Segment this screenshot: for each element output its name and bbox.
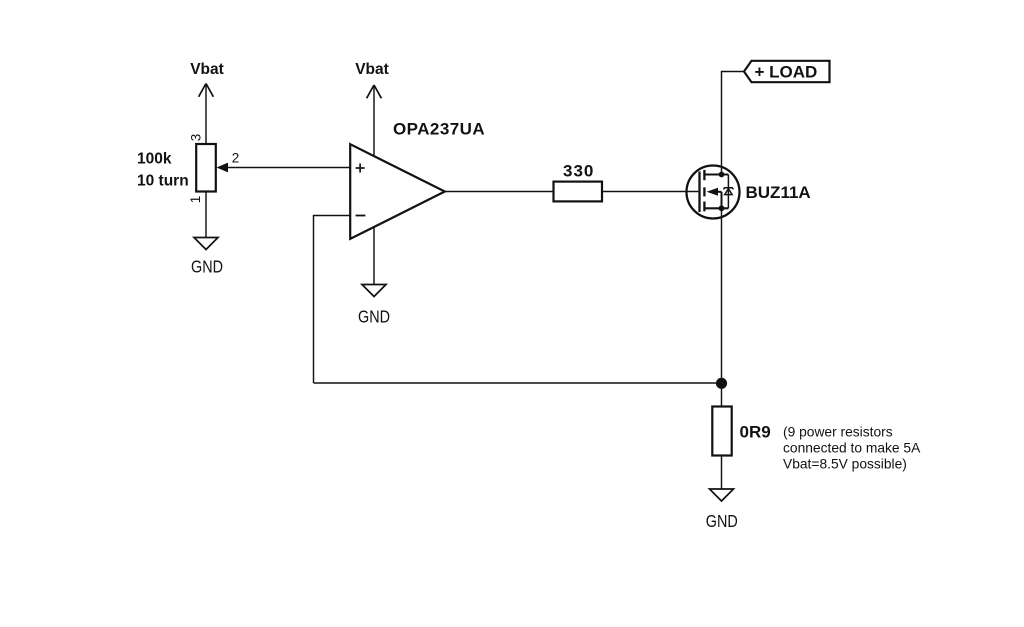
ground symbol at potentiometer	[194, 238, 218, 250]
op-amp minus input marker	[356, 215, 366, 217]
potentiometer R? body 100k 10 turn	[196, 144, 216, 192]
svg-text:BUZ11A: BUZ11A	[746, 183, 811, 202]
value label 100k / 10 turn	[137, 151, 189, 190]
svg-text:3: 3	[189, 134, 204, 142]
wire op-amp output to resistor 330	[445, 191, 554, 193]
svg-text:Vbat: Vbat	[355, 61, 389, 78]
wire op-amp V- pin to GND	[373, 227, 375, 285]
part label OPA237UA	[393, 120, 485, 139]
op-amp U1 OPA237UA triangle	[350, 144, 445, 239]
wire Vbat arrow to op-amp V+ pin	[373, 85, 375, 157]
MOSFET body diode branch	[724, 175, 734, 209]
pin number 2 (wiper)	[232, 151, 240, 166]
MOSFET bulk arrow	[707, 188, 722, 209]
op-amp plus input marker	[356, 164, 365, 173]
MOSFET source connection line	[704, 207, 728, 209]
ground label GND (potentiometer)	[191, 257, 223, 277]
MOSFET drain node dot	[719, 172, 725, 178]
svg-text:GND: GND	[358, 307, 390, 327]
svg-text:330: 330	[563, 162, 594, 181]
wire resistor 330 to MOSFET gate	[602, 191, 698, 193]
annotation note (9 power resistors ...)	[783, 425, 921, 472]
wire wiper to op-amp non-inverting input	[227, 167, 350, 169]
wire MOSFET source to sense node	[721, 208, 723, 406]
svg-text:100k: 100k	[137, 151, 172, 168]
resistor R? 330 body	[554, 182, 603, 202]
ground label GND (op-amp)	[358, 307, 390, 327]
svg-text:0R9: 0R9	[740, 423, 771, 442]
MOSFET source node dot	[719, 205, 725, 211]
svg-text:+ LOAD: + LOAD	[755, 63, 818, 82]
power arrow Vbat at op-amp	[367, 85, 382, 98]
flag net label + LOAD	[744, 61, 830, 82]
part label BUZ11A	[746, 183, 811, 202]
MOSFET gate bar	[698, 172, 700, 213]
MOSFET channel bar segments	[703, 170, 705, 211]
svg-text:2: 2	[232, 151, 240, 166]
wire 0R9 to GND	[721, 456, 723, 490]
svg-text:OPA237UA: OPA237UA	[393, 120, 485, 139]
ground symbol at op-amp	[362, 285, 386, 297]
wire Vbat arrow to potentiometer pin 3	[205, 84, 207, 145]
potentiometer wiper arrow (pin 2)	[217, 163, 229, 173]
svg-text:10 turn: 10 turn	[137, 173, 189, 190]
svg-text:GND: GND	[706, 511, 738, 531]
ground symbol at 0R9	[710, 489, 734, 501]
svg-text:(9 power resistors: (9 power resistors	[783, 425, 893, 440]
svg-text:Vbat: Vbat	[190, 61, 224, 78]
pin number 3 (potentiometer top)	[189, 134, 204, 142]
MOSFET drain connection line	[704, 173, 728, 175]
net label Vbat (potentiometer branch)	[190, 61, 224, 78]
value label 330	[563, 162, 594, 181]
resistor R? 0R9 body	[712, 407, 731, 456]
pin number 1 (potentiometer bottom)	[188, 196, 203, 204]
wire potentiometer pin 1 to GND	[205, 192, 207, 238]
ground label GND (0R9)	[706, 511, 738, 531]
wire op-amp inverting input feedback (left segment)	[314, 215, 351, 217]
svg-text:Vbat=8.5V possible): Vbat=8.5V possible)	[783, 457, 907, 472]
power arrow Vbat at potentiometer	[199, 84, 214, 97]
transistor Q1 BUZ11A MOSFET circle	[687, 166, 740, 219]
junction node dot (sense node)	[716, 378, 727, 389]
wire feedback vertical segment	[313, 215, 315, 383]
wire MOSFET drain to +LOAD flag	[722, 72, 745, 175]
svg-text:GND: GND	[191, 257, 223, 277]
value label 0R9	[740, 423, 771, 442]
svg-text:connected to make 5A: connected to make 5A	[783, 441, 921, 456]
wire feedback horizontal segment to sense node	[314, 382, 722, 384]
svg-text:1: 1	[188, 196, 203, 204]
net label Vbat (op-amp supply)	[355, 61, 389, 78]
